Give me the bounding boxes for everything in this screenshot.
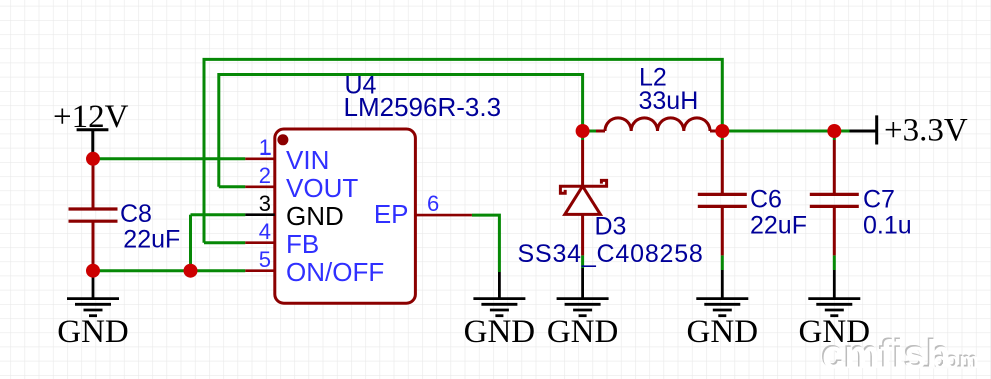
ground (C6) [696, 270, 748, 316]
svg-text:+3.3V: +3.3V [884, 113, 968, 149]
ground (C7) [808, 270, 860, 316]
svg-text:0.1u: 0.1u [863, 211, 912, 239]
svg-text:22uF: 22uF [123, 225, 180, 253]
svg-text:GND: GND [547, 314, 619, 350]
svg-text:D3: D3 [595, 213, 627, 241]
svg-text:LM2596R-3.3: LM2596R-3.3 [344, 92, 502, 122]
svg-text:GND: GND [286, 201, 344, 231]
wire GND vertical x=190.5 [189, 215, 192, 271]
svg-text:SS34_C408258: SS34_C408258 [518, 240, 704, 268]
diode D3 leads [581, 140, 584, 255]
ground (D3) [557, 268, 609, 316]
svg-text:VOUT: VOUT [286, 173, 358, 203]
wire bottom GND bus to pin5 ON/OFF [93, 269, 245, 272]
inductor L2 [596, 130, 719, 133]
node junction switch node [576, 124, 590, 138]
capacitor C8 [92, 163, 95, 267]
diode D3 schottky bar with hooks [560, 180, 606, 193]
wire VOUT loop: vertical x=218.8, horizontal y=74.5 to switch node [219, 75, 583, 187]
node junction C8 bottom [86, 264, 100, 278]
pin 6 stub [415, 214, 472, 217]
svg-text:1: 1 [259, 135, 271, 160]
svg-text:GND: GND [687, 314, 759, 350]
wire pin6 EP to ground [472, 215, 500, 272]
svg-text:FB: FB [286, 229, 319, 259]
pin 4 stub [245, 241, 274, 244]
capacitor C6 [721, 140, 724, 255]
ground (C8 / bottom bus) [67, 274, 119, 316]
svg-text:C7: C7 [863, 185, 895, 213]
pin 2 stub [245, 186, 274, 189]
wire FB loop: vertical x=204 and top horizontal to output node [204, 59, 722, 242]
svg-text:22uF: 22uF [750, 211, 807, 239]
svg-text:GND: GND [464, 314, 536, 350]
node junction output node [715, 124, 729, 138]
wire switch node stubs [583, 131, 596, 268]
pin 1 stub [245, 158, 274, 161]
node junction +12V/C8 top [86, 152, 100, 166]
power +3.3V wire and bar [850, 115, 877, 144]
pin1 marker dot [277, 134, 288, 145]
watermark cmfish.com [821, 332, 979, 378]
svg-text:33uH: 33uH [639, 87, 699, 115]
capacitor C7 [833, 140, 836, 255]
svg-text:EP: EP [374, 199, 409, 229]
svg-text:3: 3 [259, 191, 271, 216]
ground (EP pin6) [473, 272, 525, 316]
svg-text:+12V: +12V [53, 99, 129, 135]
wire +12V to pin1 VIN [93, 157, 245, 160]
power +12V bar and stem [77, 130, 109, 156]
svg-text:6: 6 [427, 191, 439, 216]
pin 5 stub [245, 269, 274, 272]
wire VOUT to pin2 [219, 185, 246, 188]
svg-text:VIN: VIN [286, 145, 329, 175]
svg-text:GND: GND [57, 314, 129, 350]
wire output node to C7 node and +3.3V [719, 131, 850, 270]
svg-text:C6: C6 [750, 185, 782, 213]
wire FB to pin4 [204, 241, 245, 244]
diode D3 triangle [565, 186, 601, 214]
svg-text:C8: C8 [120, 200, 152, 228]
pin 3 stub (black) [245, 213, 274, 216]
node junction C7 node [827, 124, 841, 138]
op-amp U1 : IC U4 body [275, 129, 416, 303]
node junction GND bus [184, 264, 198, 278]
svg-text:.com: .com [928, 348, 979, 373]
svg-text:5: 5 [259, 247, 271, 272]
svg-text:4: 4 [259, 219, 271, 244]
svg-text:ON/OFF: ON/OFF [286, 257, 384, 287]
svg-text:2: 2 [259, 163, 271, 188]
wire GND to pin3 [191, 213, 246, 216]
